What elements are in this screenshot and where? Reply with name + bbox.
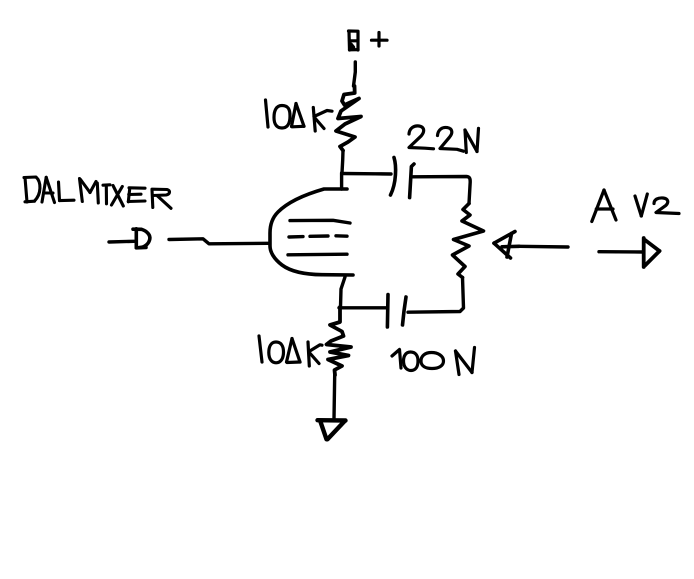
- label 100K upper: [266, 100, 333, 131]
- wire anode node down to tube: [340, 173, 343, 189]
- resistor R1 100K: [336, 86, 361, 151]
- wire R1 to anode node: [342, 151, 343, 174]
- capacitor C2 left plate: [386, 295, 390, 328]
- input arrow line: [109, 240, 134, 244]
- input arrowhead D: [133, 229, 150, 248]
- triode V1 cathode: [288, 252, 347, 256]
- output arrow line: [599, 250, 643, 254]
- label DALMIXER: [24, 177, 171, 208]
- wire cathode down: [341, 277, 346, 307]
- wire R2 to ground: [332, 375, 336, 419]
- triode V1 envelope: [270, 189, 353, 275]
- wire B+ to R1: [354, 62, 356, 86]
- wire cathode node to C2: [339, 306, 387, 309]
- triode V1 grid dash 1: [289, 235, 303, 239]
- triode V1 grid dash 2: [310, 234, 328, 238]
- wire input to grid: [169, 239, 268, 244]
- wire pot bottom to C2: [408, 278, 464, 313]
- label A V2: [592, 190, 679, 222]
- capacitor C1 right plate: [410, 164, 414, 198]
- node anode junction wire to C1: [342, 172, 391, 176]
- ground symbol: [318, 420, 346, 439]
- label 100N: [392, 348, 475, 375]
- potentiometer R3 zigzag: [453, 204, 484, 278]
- triode V1 grid dash 3: [336, 234, 347, 238]
- label 100K lower: [259, 336, 322, 366]
- label B+ supply: [349, 31, 388, 50]
- pot wiper arrowhead: [494, 232, 519, 259]
- capacitor C2 right plate: [403, 297, 407, 325]
- triode V1 plate: [290, 220, 350, 223]
- output arrowhead: [644, 238, 660, 267]
- label 22N: [409, 126, 479, 153]
- resistor R2 100K: [327, 307, 352, 375]
- wire C1 to pot top: [412, 177, 471, 204]
- capacitor C1 left plate: [391, 158, 396, 196]
- wire wiper to output: [519, 245, 568, 249]
